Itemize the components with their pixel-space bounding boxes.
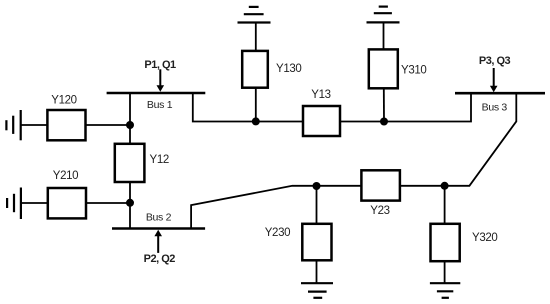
bus Bus 2	[112, 227, 205, 230]
admittance Y120	[47, 110, 85, 140]
wire Y230 to ground G5	[316, 260, 318, 283]
node C junction dot (Y130 tap)	[252, 117, 260, 125]
admittance Y12	[115, 144, 145, 182]
wire Y13 to Bus 3 left stem	[340, 93, 471, 122]
wire Y23 left to diagonal and Bus 2 stem	[191, 186, 361, 229]
svg-text:Y23: Y23	[370, 205, 389, 217]
svg-text:Y120: Y120	[51, 95, 76, 107]
wire node E to Y230	[316, 186, 318, 224]
svg-text:Y320: Y320	[472, 232, 497, 244]
node A junction dot	[126, 121, 134, 129]
wire ground G4 to Y310	[383, 22, 385, 49]
svg-text:Bus 1: Bus 1	[147, 99, 173, 111]
admittance Y230	[302, 224, 331, 260]
admittance Y130	[242, 51, 268, 88]
admittance Y320	[431, 224, 460, 261]
svg-text:Y310: Y310	[401, 65, 426, 77]
svg-text:Y230: Y230	[265, 227, 290, 239]
node D junction dot (Y310 tap)	[380, 118, 388, 126]
wire ground G3 to Y130	[255, 23, 257, 51]
wire Y130 bottom to node C	[255, 88, 257, 122]
wire Bus 1 right stem	[193, 93, 303, 122]
wire Y210 to node B	[86, 202, 130, 204]
ground G5 (below Y230)	[301, 283, 333, 298]
ground G4 (above Y310)	[367, 7, 400, 23]
wire ground G2 to Y210	[21, 202, 48, 204]
ground G3 (above Y130)	[238, 7, 271, 23]
node B junction dot	[126, 199, 134, 207]
arrow P3,Q3 injection	[490, 68, 498, 92]
node E junction dot (Y230 tap)	[313, 182, 321, 190]
ground G1 (left of Y120)	[6, 110, 20, 140]
wire node F to Y320	[444, 186, 446, 224]
wire Y310 bottom to node D	[383, 88, 385, 121]
admittance Y310	[369, 49, 398, 88]
svg-text:Y130: Y130	[276, 63, 301, 75]
svg-text:Y12: Y12	[150, 154, 169, 166]
bus Bus 3	[455, 92, 545, 95]
svg-text:Bus 2: Bus 2	[146, 211, 172, 223]
admittance Y210	[48, 188, 86, 218]
ground G6 (below Y320)	[430, 283, 460, 298]
svg-text:Y13: Y13	[311, 89, 330, 101]
wire Y12 bottom to Bus 2	[129, 182, 131, 229]
ground G2 (left of Y210)	[7, 188, 21, 220]
svg-text:P2, Q2: P2, Q2	[144, 253, 176, 265]
svg-text:P3, Q3: P3, Q3	[479, 55, 511, 67]
admittance Y23	[361, 170, 400, 200]
svg-text:P1, Q1: P1, Q1	[144, 59, 176, 71]
svg-text:Bus 3: Bus 3	[482, 101, 508, 113]
wire ground G1 to Y120	[21, 124, 48, 126]
bus Bus 1	[107, 92, 206, 95]
admittance Y13	[303, 106, 340, 136]
wire Y120 to node A	[86, 124, 131, 126]
arrow P2,Q2 injection	[154, 230, 162, 253]
wire Bus 3 right stem and diagonal to row 2	[400, 93, 516, 186]
node F junction dot (Y320 tap)	[441, 182, 449, 190]
wire Y320 to ground G6	[444, 261, 446, 283]
wire Bus 1 left stem to Y12 top	[129, 93, 131, 145]
arrow P1,Q1 injection	[157, 69, 165, 92]
svg-text:Y210: Y210	[53, 170, 78, 182]
